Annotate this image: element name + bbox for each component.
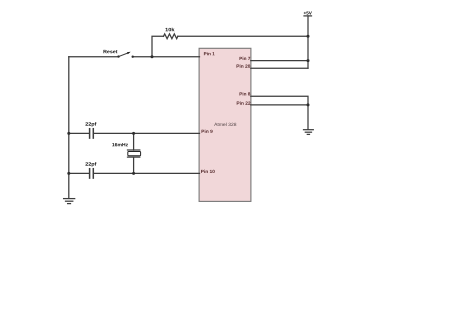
crystal Y1 16mHz bottom plate (128, 156, 140, 158)
switch SW1 Reset arm (119, 53, 129, 57)
label 22pf (85, 162, 96, 166)
wire pin10 net right (94, 172, 200, 174)
label 10k (165, 28, 174, 32)
label Pin 20 (237, 64, 251, 67)
junction dot pin7 / +5V (307, 59, 310, 62)
junction dot left rail pin9 (67, 132, 70, 135)
wire left rail vertical (68, 57, 70, 198)
capacitor C2 22pf plates (90, 169, 94, 178)
label +5V (304, 11, 312, 14)
junction dot reset net (151, 55, 154, 58)
wire pin9 net right (94, 132, 200, 134)
ground right symbol (304, 130, 314, 135)
wire pin22 net (251, 104, 308, 106)
switch right contact dot (132, 56, 134, 58)
switch SW1 arrowhead (127, 52, 131, 55)
label 22pf (85, 122, 96, 126)
label 16mHz (112, 143, 128, 146)
junction dot left rail pin10 (67, 172, 70, 175)
label Pin 8 (240, 92, 251, 95)
wire pin10 net left (69, 172, 89, 174)
wire pin20 net (251, 67, 308, 69)
ground left symbol (64, 199, 75, 204)
ic U1 Atmel 328 body (199, 48, 251, 201)
capacitor C1 22pf plates (90, 129, 94, 138)
crystal Y1 16mHz top plate (128, 149, 140, 151)
label Pin 1 (204, 52, 215, 55)
power +5V symbol bar (304, 15, 312, 17)
junction dot crystal pin9 (132, 132, 135, 135)
label Pin 22 (237, 101, 251, 104)
wire pin8 net (251, 96, 308, 129)
label Pin 9 (202, 130, 213, 133)
crystal Y1 16mHz body (128, 152, 141, 156)
wire pin9 net left (69, 132, 89, 134)
label Reset (103, 50, 117, 53)
wire crystal top vertical (133, 133, 135, 150)
label Atmel 328 (214, 123, 236, 126)
wire top rail right segment (178, 35, 308, 37)
wire pin1 net left (69, 56, 119, 58)
switch left contact dot (117, 55, 119, 57)
junction dot pin22 / ground rail (307, 103, 310, 106)
junction dot top rail / +5V (307, 35, 310, 38)
junction dot crystal pin10 (132, 172, 135, 175)
wire pin7 net (251, 60, 308, 62)
resistor R1 10k zigzag (164, 34, 178, 39)
label Pin 7 (240, 57, 251, 60)
wire top rail left segment (152, 36, 164, 56)
wire pin1 net right (133, 56, 200, 58)
wire crystal bottom vertical (133, 157, 135, 173)
label Pin 10 (201, 170, 215, 173)
power +5V vertical wire (307, 16, 309, 68)
